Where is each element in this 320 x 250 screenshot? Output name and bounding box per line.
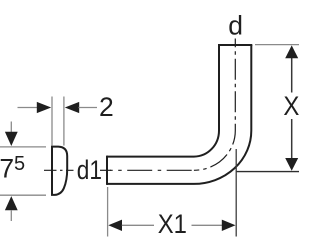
centerline through seal [44, 169, 74, 171]
svg-text:X1: X1 [158, 209, 187, 239]
dim X bottom extension [237, 171, 300, 173]
dim 2 tick left [51, 97, 53, 146]
dim 75 top arrow [5, 132, 18, 146]
dim X1 left leader [122, 224, 154, 226]
dim X up arrow [285, 45, 298, 58]
dim X top extension [255, 44, 299, 46]
pipe bend inner edge [107, 45, 219, 157]
svg-text:2: 2 [99, 92, 114, 122]
dim 75 bottom extension [0, 194, 46, 196]
dim X1 right arrow [222, 220, 236, 231]
svg-text:X: X [283, 91, 299, 121]
seal collar [52, 147, 67, 195]
pipe bend outer edge [107, 45, 251, 184]
centerline at pipe end [100, 169, 111, 171]
dim X1 left extension [107, 187, 109, 237]
dim 75 top stem [10, 122, 12, 133]
dim 2 right arrow [65, 102, 79, 113]
dim 75 top extension [0, 146, 46, 148]
dim 75 bottom stem [10, 210, 12, 221]
dim 2 tick right [63, 97, 65, 146]
dim X1 right extension [235, 149, 237, 237]
dim X line upper [291, 58, 293, 93]
svg-text:d: d [228, 11, 243, 41]
pipe top end edge [218, 44, 252, 46]
dim X1 right leader [192, 224, 223, 226]
centerline vertical+arc [194, 39, 235, 171]
dim X down arrow [285, 158, 298, 171]
dim 2 left leader [18, 107, 38, 109]
centerline horizontal [110, 169, 194, 171]
dim 75 bottom arrow [5, 196, 18, 210]
dim X line lower [291, 119, 293, 159]
dim X1 left arrow [108, 220, 122, 231]
pipe left end edge [106, 156, 108, 185]
dim 2 right leader [79, 107, 98, 109]
svg-text:d1: d1 [77, 155, 102, 185]
dim 2 left arrow [37, 102, 51, 113]
